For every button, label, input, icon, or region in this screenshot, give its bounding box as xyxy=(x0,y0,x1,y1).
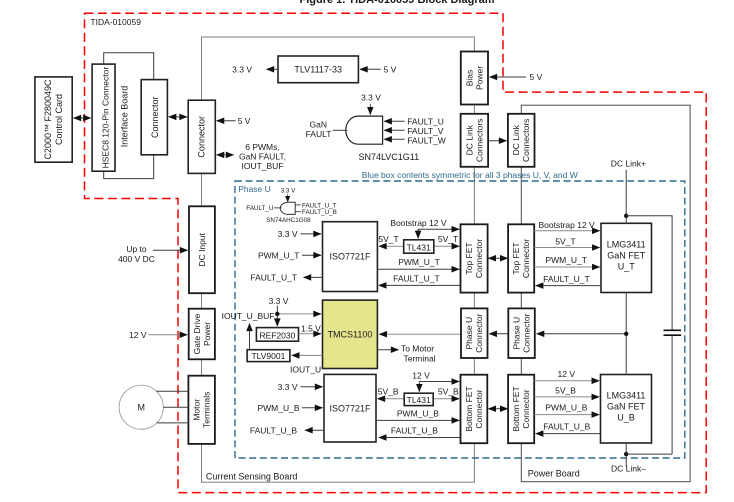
svg-text:TIDA-010059: TIDA-010059 xyxy=(90,17,141,27)
node: DC Link- junction xyxy=(624,452,628,456)
svg-text:FAULT_W: FAULT_W xyxy=(407,136,446,146)
svg-text:5 V: 5 V xyxy=(238,116,251,126)
wire: FAULT_U_B out of ISO7721F bottom xyxy=(305,429,324,431)
svg-text:Interface Board: Interface Board xyxy=(120,86,130,148)
wire: Up to 400 V DC arrow into DC Input xyxy=(153,249,188,251)
svg-text:3.3 V: 3.3 V xyxy=(278,229,298,239)
svg-text:PWM_U_T: PWM_U_T xyxy=(398,257,440,267)
svg-text:3.3 V: 3.3 V xyxy=(269,296,289,306)
wire: FAULT_U input arrow xyxy=(384,120,404,122)
svg-text:REF2030: REF2030 xyxy=(259,330,295,340)
svg-text:Bootstrap 12 V: Bootstrap 12 V xyxy=(538,220,595,230)
wire: small gate output stub B xyxy=(295,211,301,213)
wire: phase node to Phase U connector (power board) xyxy=(537,333,625,335)
block U8: REF2030 reference xyxy=(256,328,298,342)
block U10: ISO7721F bottom isolator xyxy=(324,374,376,442)
svg-text:Power Board: Power Board xyxy=(528,469,580,479)
wire: Bootstrap 12 V drop into TL431 xyxy=(417,229,419,238)
wire: 6 PWMs bus double arrow xyxy=(217,154,234,156)
wire: small gate output stub T xyxy=(295,204,301,206)
svg-text:DC Input: DC Input xyxy=(197,232,207,266)
svg-text:IOUT_U: IOUT_U xyxy=(290,365,321,375)
dashed border: Phase U blue box xyxy=(235,181,685,458)
block: Bottom FET Connector (current sensing board) xyxy=(461,375,488,444)
block: Gate Drive Power xyxy=(189,309,215,360)
wire: TLV9001 output up to IOUT_U_BUF xyxy=(249,324,251,350)
motor M xyxy=(119,385,163,429)
svg-text:SN74AHC1G08: SN74AHC1G08 xyxy=(266,217,311,224)
wire: PWM_U_T to LMG U_T xyxy=(534,266,600,268)
svg-text:5V_T: 5V_T xyxy=(438,234,458,244)
block: Top FET Connector (power board) xyxy=(508,224,534,292)
svg-text:FAULT_U: FAULT_U xyxy=(246,205,274,212)
board outline: Power Board xyxy=(521,105,690,482)
wire: interface Connector to board Connector double arrow xyxy=(169,116,187,118)
wire: PWM_U_B into ISO7721F bottom xyxy=(302,407,323,409)
block: Top FET Connector (current sensing board) xyxy=(461,224,488,292)
wire: 5V_B line ISO to Bottom FET Connector xyxy=(378,398,460,400)
wire: C2000 to HSEC8 double arrow xyxy=(74,117,91,119)
block U2: C2000 F280049C Control Card xyxy=(35,77,72,162)
wire: FAULT_U_B Bottom FET Connector to ISO xyxy=(379,437,460,439)
svg-text:3.3 V: 3.3 V xyxy=(281,187,297,194)
block: DC Input xyxy=(189,206,215,293)
svg-text:Bottom FETConnector: Bottom FETConnector xyxy=(464,386,484,431)
svg-text:Phase UConnector: Phase UConnector xyxy=(464,313,484,352)
svg-text:5V_B: 5V_B xyxy=(555,386,576,396)
wire: Bootstrap 12 V horizontal into Top FET Connector xyxy=(418,228,459,230)
svg-text:TL431: TL431 xyxy=(407,395,431,405)
block: Bias Power xyxy=(461,52,488,105)
wire: 3.3V drop into REF2030 xyxy=(276,306,278,327)
wire: HSEC8 top bus loop to Connector xyxy=(104,53,154,80)
block: Interface Board Connector xyxy=(141,80,167,155)
wire: Phase U connector arrow right-to-left xyxy=(489,333,507,335)
svg-text:Top FETConnector: Top FETConnector xyxy=(511,239,531,278)
wire: TMCS1100 to TLV9001 xyxy=(292,354,323,356)
svg-text:Connector: Connector xyxy=(150,96,160,138)
wire: 5 V into Bias Power xyxy=(490,76,527,78)
svg-text:FAULT_U_B: FAULT_U_B xyxy=(391,426,438,436)
svg-text:FAULT_U_B: FAULT_U_B xyxy=(250,425,297,435)
wire: IOUT_U_BUF junction to TMCS1100 xyxy=(277,313,321,315)
wire: FAULT_V input arrow xyxy=(384,129,404,131)
svg-text:Blue box contents symmetric fo: Blue box contents symmetric for all 3 ph… xyxy=(362,170,578,180)
svg-text:TL431: TL431 xyxy=(407,242,431,252)
svg-text:5V_T: 5V_T xyxy=(555,236,575,246)
node: phase junction xyxy=(624,332,628,336)
svg-text:DC Link+: DC Link+ xyxy=(611,158,646,168)
block: TL431 bottom shunt reference xyxy=(404,393,433,405)
wire: phase node between LMG U_T and U_B xyxy=(625,293,627,375)
svg-text:Phase UConnector: Phase UConnector xyxy=(512,313,532,352)
wire: FAULT_U_T from LMG U_T xyxy=(536,285,601,287)
svg-text:ISO7721F: ISO7721F xyxy=(329,403,371,413)
svg-text:TMCS1100: TMCS1100 xyxy=(328,329,373,339)
wire: 5 V into Connector xyxy=(217,120,236,122)
wire: REF2030 1.5V to TMCS1100 xyxy=(299,333,322,335)
svg-text:5V_B: 5V_B xyxy=(378,387,399,397)
wire: HSEC8 bottom bus loop to Connector xyxy=(104,155,154,179)
svg-text:FAULT_V: FAULT_V xyxy=(407,126,444,136)
svg-text:FAULT_U_T: FAULT_U_T xyxy=(393,274,440,284)
svg-text:6 PWMs,GaN FAULT,IOUT_BUF: 6 PWMs,GaN FAULT,IOUT_BUF xyxy=(239,142,286,171)
wire: To Motor Terminal arrow from TMCS1100 xyxy=(377,349,398,351)
svg-text:PWM_U_T: PWM_U_T xyxy=(545,255,587,265)
block U9: TLV9001 op amp xyxy=(247,350,290,362)
block: DC Link Connectors (power board) xyxy=(508,114,535,167)
wire: 5V into TLV1117 xyxy=(360,68,381,70)
gate U5: SN74AHC1G08 AND gate body xyxy=(280,202,295,214)
wire: 3.3V arrow into small gate xyxy=(287,194,289,201)
wire: 5V_T to LMG U_T xyxy=(534,247,600,249)
node: junction IOUT_U_BUF xyxy=(275,312,279,316)
wire: TLV1117 3.3V output arrow xyxy=(267,68,279,70)
wire: FAULT_W input arrow xyxy=(384,138,404,140)
wire: DC Link+ rail down to LMG U_T xyxy=(625,170,627,224)
svg-text:PWM_U_B: PWM_U_B xyxy=(257,403,299,413)
gate U4: SN74LVC1G11 AND gate body xyxy=(346,116,383,144)
wire: Top FET connectors double arrow xyxy=(488,257,507,259)
block Q1: LMG3411 GaN FET U_T xyxy=(601,223,652,292)
block: Current Sensing Board Connector xyxy=(188,100,215,173)
wire: FAULT_U into small gate xyxy=(274,207,282,209)
svg-text:To MotorTerminal: To MotorTerminal xyxy=(401,344,436,364)
wire: PWM_U_B ISO to Bottom FET Connector xyxy=(376,419,459,421)
wire: 3.3 V into ISO7721F bottom xyxy=(301,386,323,388)
svg-text:12 V: 12 V xyxy=(129,330,147,340)
svg-text:3.3 V: 3.3 V xyxy=(278,382,298,392)
svg-text:PWM_U_B: PWM_U_B xyxy=(545,403,587,413)
wire: capacitor bottom to DC Link- rail xyxy=(671,336,673,454)
svg-text:FAULT_U_B: FAULT_U_B xyxy=(543,422,590,432)
svg-text:3.3 V: 3.3 V xyxy=(361,93,381,103)
svg-text:5V_B: 5V_B xyxy=(438,387,459,397)
svg-text:5 V: 5 V xyxy=(384,64,397,74)
svg-text:FAULT_U_T: FAULT_U_T xyxy=(543,274,590,284)
block: Motor Terminals xyxy=(188,376,215,444)
block: TL431 top shunt reference xyxy=(404,240,434,253)
svg-text:Top FETConnector: Top FETConnector xyxy=(464,239,484,278)
svg-text:IOUT_U_BUF: IOUT_U_BUF xyxy=(222,311,275,321)
board outline: Current Sensing Board xyxy=(202,37,475,482)
wire: motor phase wire 3 xyxy=(157,422,188,424)
svg-text:DC Link–: DC Link– xyxy=(611,463,646,473)
wire: PWM_U_B to LMG U_B xyxy=(534,414,599,416)
wire: PWM_U_T into ISO7721F top xyxy=(302,254,321,256)
svg-text:Bootstrap 12 V: Bootstrap 12 V xyxy=(390,218,447,228)
svg-text:FAULT_U: FAULT_U xyxy=(407,116,444,126)
wire: 12 V arrow into Gate Drive Power xyxy=(149,334,188,336)
wire: 12 V drop into TL431 bottom xyxy=(418,382,420,392)
svg-text:5 V: 5 V xyxy=(530,72,543,82)
wire: FAULT_U_B from LMG U_B xyxy=(536,433,601,435)
svg-text:12 V: 12 V xyxy=(558,369,576,379)
svg-text:TLV1117-33: TLV1117-33 xyxy=(294,64,342,74)
svg-text:Bottom FETConnector: Bottom FETConnector xyxy=(511,386,531,431)
wire: PWM_U_T ISO to Top FET Connector xyxy=(377,268,459,270)
svg-text:1.5 V: 1.5 V xyxy=(301,324,321,334)
svg-text:ISO7721F: ISO7721F xyxy=(329,252,371,262)
wire: 3.3 V into ISO7721F top xyxy=(301,233,322,235)
wire: 12 V horizontal into Bottom FET Connector xyxy=(419,381,459,383)
wire: motor phase wire 2 xyxy=(163,406,188,408)
wire: Bottom FET connectors double arrow xyxy=(488,408,507,410)
wire: motor phase wire 1 xyxy=(157,390,189,392)
svg-text:Current Sensing Board: Current Sensing Board xyxy=(206,471,298,481)
node: DC Link+ junction xyxy=(624,214,628,218)
block Q2: LMG3411 GaN FET U_B xyxy=(601,375,652,444)
wire: Bootstrap 12 V to LMG U_T xyxy=(534,230,600,232)
capacitor C1: DC link cap plates xyxy=(664,330,682,335)
wire: DC Link connectors arrow xyxy=(489,140,507,142)
svg-text:PWM_U_T: PWM_U_T xyxy=(258,251,300,261)
svg-text:SN74LVC1G11: SN74LVC1G11 xyxy=(358,152,419,162)
svg-text:Figure 1. TIDA-010059 Block Di: Figure 1. TIDA-010059 Block Diagram xyxy=(299,0,494,6)
svg-text:M: M xyxy=(137,402,145,412)
block J1: HSEC8 120-Pin Connector xyxy=(92,64,115,171)
svg-text:12 V: 12 V xyxy=(412,371,430,381)
block: Bottom FET Connector (power board) xyxy=(508,375,534,444)
wire: phase line Phase U Connector to TMCS1100 xyxy=(379,333,460,335)
svg-text:FAULT_U_T: FAULT_U_T xyxy=(250,273,297,283)
svg-text:HSEC8 120-Pin Connector: HSEC8 120-Pin Connector xyxy=(101,67,111,169)
svg-text:FAULT_U_B: FAULT_U_B xyxy=(302,209,337,216)
wire: DC Link+ branch to capacitor xyxy=(626,216,672,330)
block U3: TLV1117-33 regulator xyxy=(278,56,358,83)
svg-text:PWM_U_B: PWM_U_B xyxy=(397,409,439,419)
block U7: TMCS1100 current sensor xyxy=(323,300,378,368)
wire: 5V_B to LMG U_B xyxy=(534,396,599,398)
wire: GaN FAULT output from gate xyxy=(333,129,348,131)
wire: DC Link- horizontal to capacitor branch xyxy=(626,453,672,455)
wire: LMG U_B source down to DC Link- xyxy=(625,443,627,467)
block: DC Link Connectors (current sensing board) xyxy=(461,114,489,167)
block: Phase U Connector (power board) xyxy=(508,308,535,358)
wire: FAULT_U_T Top FET Connector to ISO xyxy=(379,284,460,286)
svg-text:Phase U: Phase U xyxy=(238,184,271,194)
svg-text:5V_T: 5V_T xyxy=(378,234,398,244)
svg-text:Connector: Connector xyxy=(197,116,207,158)
wire: 12 V to LMG U_B xyxy=(534,380,599,382)
wire: 5V_T line ISO to Top FET Connector xyxy=(379,245,459,247)
svg-text:3.3 V: 3.3 V xyxy=(232,64,252,74)
svg-text:TLV9001: TLV9001 xyxy=(251,351,285,361)
wire: 3.3V supply arrow into gate top xyxy=(369,104,371,115)
wire: FAULT_U_T out of ISO7721F top xyxy=(304,276,323,278)
block U6: ISO7721F top isolator xyxy=(323,222,378,292)
block: Phase U Connector (current sensing board) xyxy=(461,308,488,358)
